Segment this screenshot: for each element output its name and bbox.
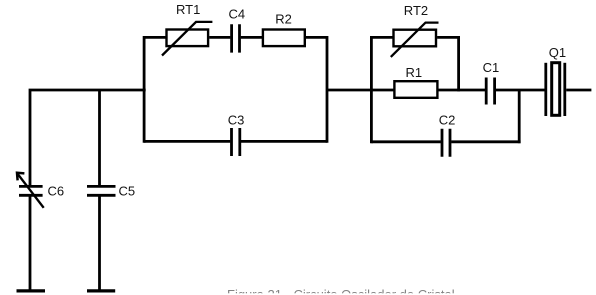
svg-text:C1: C1 <box>483 60 500 75</box>
svg-text:Q1: Q1 <box>549 45 566 60</box>
wire: main line from C1 to Q1 <box>496 89 545 92</box>
svg-text:C2: C2 <box>439 112 456 127</box>
wire: block 1 bottom branch segments <box>144 140 327 143</box>
thermistor RT2 <box>391 23 439 57</box>
wire: main line between block 1 and block 2 <box>327 89 373 92</box>
capacitor C3 <box>232 128 240 156</box>
svg-text:RT1: RT1 <box>176 2 200 17</box>
capacitor C4 <box>232 24 240 52</box>
wire: C6 lower lead to ground <box>29 195 32 291</box>
wire: R1 branch segments and main line to C1 <box>371 89 485 92</box>
wire: block 2 top branch segments <box>371 36 458 39</box>
wire: C5 branch stub from main line <box>98 90 101 186</box>
thermistor RT1 <box>162 22 212 56</box>
crystal Q1 <box>546 63 565 116</box>
resistor R1 <box>394 81 437 98</box>
wire: block 1 left vertical <box>143 36 146 143</box>
capacitor C5 <box>87 186 116 195</box>
wire: C5 lower lead to ground <box>98 195 101 291</box>
wire: block 2 right vertical <box>457 36 460 91</box>
svg-text:C5: C5 <box>119 184 136 199</box>
svg-text:R2: R2 <box>275 12 292 27</box>
resistor R2 <box>263 30 305 47</box>
wire: block 2 bottom branch segments <box>371 140 520 143</box>
wire: junction vertical from main line down to C2 branch <box>518 90 521 143</box>
svg-text:R1: R1 <box>406 65 423 80</box>
svg-text:C6: C6 <box>48 184 65 199</box>
capacitor C1 <box>486 78 494 105</box>
wire: left net (C6 branch up, main horizontal to block 1) <box>30 90 146 186</box>
svg-text:C3: C3 <box>228 112 245 127</box>
ground (under C6) <box>17 289 46 292</box>
ground (under C5) <box>87 289 115 292</box>
wire: block 2 left vertical <box>370 36 373 143</box>
wire: block 1 top branch segments <box>144 36 327 39</box>
capacitor C6 (variable) <box>17 173 44 208</box>
svg-text:RT2: RT2 <box>404 3 428 18</box>
wire: output lead right of Q1 <box>566 89 591 92</box>
capacitor C2 <box>442 129 450 157</box>
wire: block 1 right vertical <box>326 36 329 143</box>
svg-text:C4: C4 <box>229 7 246 22</box>
